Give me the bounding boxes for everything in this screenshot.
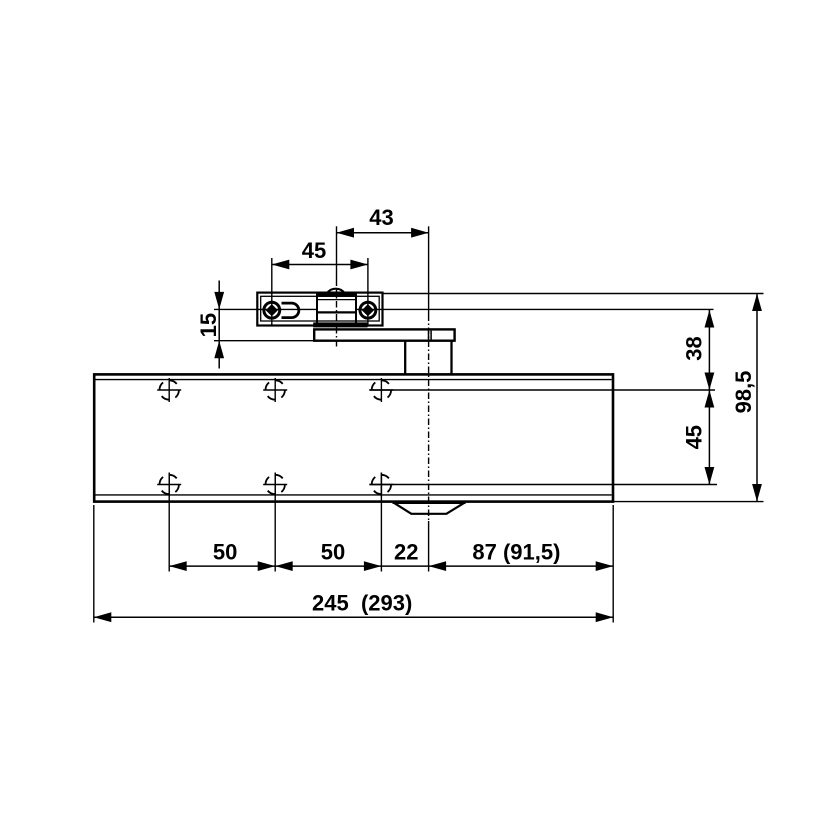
extension line arm bottom (15 dim)	[214, 340, 314, 342]
extension line body bottom (98,5 dim)	[614, 501, 764, 503]
extension line top hole row (38/45 dim)	[369, 389, 715, 391]
dimension 43	[337, 205, 429, 238]
centerline pinion	[428, 226, 430, 571]
screw head left	[264, 302, 280, 318]
extension line body left edge (245 dim)	[93, 505, 95, 623]
svg-text:50: 50	[213, 540, 237, 565]
extension line screw right (45 dim)	[367, 258, 369, 325]
svg-text:43: 43	[369, 205, 393, 230]
pivot dome cap	[327, 289, 345, 294]
extension line hole column 3	[380, 473, 382, 572]
dimension 245 (293)	[94, 591, 613, 622]
svg-text:15: 15	[196, 313, 221, 337]
svg-text:98,5: 98,5	[731, 371, 756, 414]
svg-text:50: 50	[321, 540, 345, 565]
dimension 15	[196, 281, 224, 369]
fixing screw hole symbol top left	[157, 378, 181, 402]
arm	[314, 329, 454, 340]
extension line hole column 1	[168, 473, 170, 572]
mounting plate (bracket)	[257, 293, 382, 326]
dimension 45 top	[272, 238, 368, 269]
svg-text:245 (293): 245 (293)	[312, 591, 412, 616]
screw head right	[360, 302, 376, 318]
svg-text:45: 45	[681, 425, 706, 449]
fixing screw hole symbol bottom right	[369, 473, 393, 497]
extension line bottom hole row (45 dim)	[369, 484, 717, 486]
fixing screw hole symbol bottom left	[157, 473, 181, 497]
pinion shaft housing	[405, 341, 451, 374]
fixing screw hole symbol top middle	[263, 378, 287, 402]
dimension row 50 50 22 87	[169, 540, 613, 572]
body (door closer housing) outline	[94, 374, 613, 501]
valve cover trapezoid under body	[393, 502, 466, 514]
svg-text:87 (91,5): 87 (91,5)	[472, 540, 560, 565]
svg-text:38: 38	[681, 336, 706, 360]
extension line hole column 2	[274, 473, 276, 572]
extension line body right edge (87/245 dim)	[612, 505, 614, 623]
slotted hole	[282, 303, 299, 318]
dimension 45 right	[681, 390, 714, 485]
pivot block	[313, 293, 367, 327]
svg-text:22: 22	[394, 540, 418, 565]
dimension 38	[681, 310, 714, 390]
centerline pivot block	[336, 226, 338, 348]
extension line screw axis right (38 dim)	[357, 308, 714, 310]
dimension 98,5	[731, 294, 762, 502]
extension line plate top (98,5 dim)	[383, 293, 764, 295]
extension line screw axis left (15 dim)	[214, 308, 317, 310]
extension line screw left (45 dim)	[271, 258, 273, 325]
fixing screw hole symbol top right	[369, 378, 393, 402]
svg-text:45: 45	[302, 238, 326, 263]
pinion joint lines on arm	[429, 331, 432, 340]
fixing screw hole symbol bottom middle	[263, 473, 287, 497]
